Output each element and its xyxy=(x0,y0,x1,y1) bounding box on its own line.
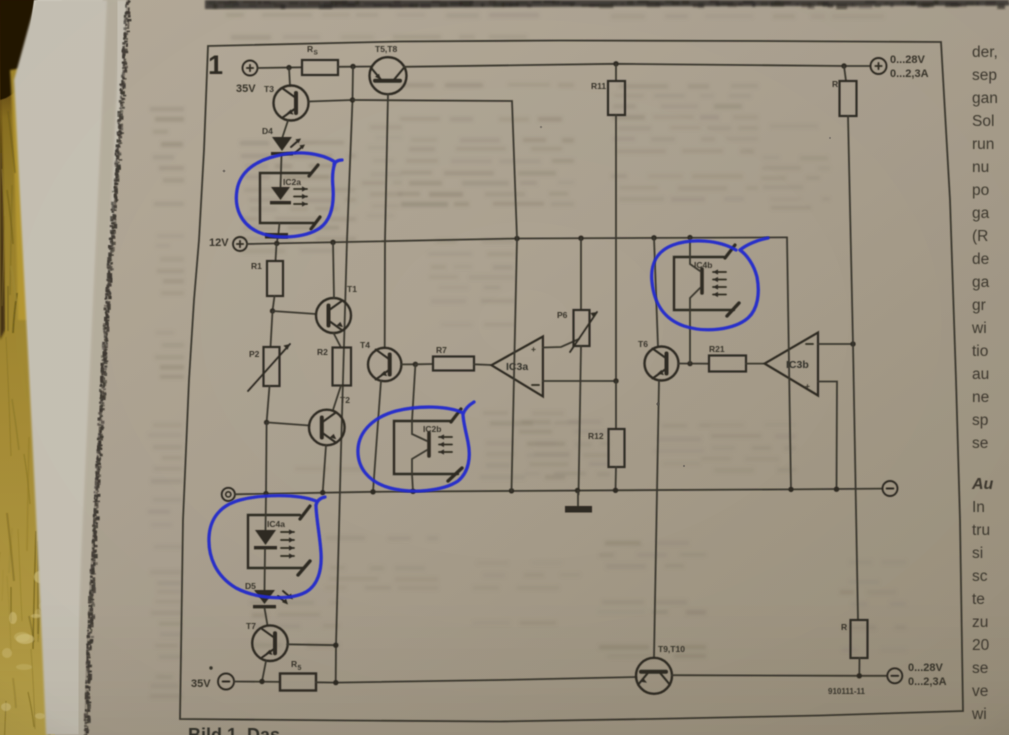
node IC3a minus input xyxy=(613,378,618,383)
white paper sheet corner top-left xyxy=(22,0,103,115)
wire IC3a plus input to P6 xyxy=(543,339,579,348)
node minus input on R vertical xyxy=(850,341,855,346)
resistor R21 xyxy=(709,356,746,372)
wire long vertical from top node down to bottom rail xyxy=(336,67,353,683)
wire R21 to IC3b output xyxy=(746,363,765,365)
transistor T1 xyxy=(316,298,351,333)
wire bottom rail left segment xyxy=(316,677,637,683)
potentiometer P6 xyxy=(580,238,582,310)
node R11 top xyxy=(613,61,618,66)
optocoupler IC4a xyxy=(248,515,303,568)
wire T3 base to vertical xyxy=(309,100,353,102)
optocoupler IC2b xyxy=(394,421,458,474)
node IC4b line on 12V rail xyxy=(687,235,692,240)
node IC4a chain on 0V rail xyxy=(263,491,268,496)
wire tap down to T3 xyxy=(289,68,290,86)
wire 35V+ to Rs xyxy=(258,66,303,69)
wire T6 collector vertical xyxy=(654,238,658,347)
transistor T2 xyxy=(309,410,345,446)
wire Rs to T5,T8 xyxy=(338,66,371,68)
resistor R2 xyxy=(333,348,352,386)
node R top right xyxy=(841,63,846,68)
blue loop around IC2a xyxy=(236,153,335,237)
node corner vertical on 0V rail xyxy=(788,487,793,492)
page curled left edge paper area xyxy=(14,0,127,735)
transistor T9,T10 xyxy=(636,658,672,694)
wire P6 down to 0V rail / ground xyxy=(579,346,582,495)
dust specks xyxy=(656,402,659,405)
wire T2 emitter to 0V rail xyxy=(323,445,326,492)
right German text column xyxy=(971,44,998,723)
wire to T2 base xyxy=(267,422,310,425)
figure frame border xyxy=(180,41,963,722)
resistor R11 xyxy=(615,64,617,81)
wire D4 to IC2a xyxy=(281,155,282,187)
resistor R (bottom right) xyxy=(851,620,868,658)
transistor T6 xyxy=(645,347,679,381)
node T6 collector line on 12V rail xyxy=(651,235,656,240)
node T3 collector tap xyxy=(286,65,291,70)
wire T6 base to R21 xyxy=(678,363,709,365)
wire T4 base to node xyxy=(401,363,415,365)
wood plank edge shadow xyxy=(0,95,5,340)
node ground stub on 0V rail xyxy=(575,488,580,493)
terminal 35V plus xyxy=(243,61,258,76)
potentiometer P2 xyxy=(264,347,280,386)
transistor T7 xyxy=(252,625,288,661)
wire IC2a bottom pin xyxy=(279,223,280,233)
blue pen tail IC4a xyxy=(316,497,325,505)
wire T1 emitter to R2 xyxy=(334,333,342,348)
halftone speckle column (edge of previous page) xyxy=(85,0,127,735)
resistor R5 xyxy=(280,674,316,691)
transistor T5,T8 xyxy=(370,57,407,94)
terminal 0V minus (right) xyxy=(883,481,898,496)
node T3 base junction xyxy=(350,97,355,102)
optocoupler IC4b xyxy=(674,257,734,310)
node vertical crossing on 12V rail xyxy=(514,236,519,241)
node R12 on 0V rail xyxy=(613,488,618,493)
wire top rail from T5,T8 to +terminal xyxy=(404,64,871,67)
wooden table left edge xyxy=(0,0,55,735)
node P2 bottom / T2 base xyxy=(264,420,269,425)
wire T4 emitter down to 0V rail xyxy=(373,381,381,492)
IC2a bottom terminal bar xyxy=(265,233,288,239)
wire down to 0V rail xyxy=(265,422,268,493)
resistor R1 xyxy=(276,244,277,262)
wire T6 emitter down to T9,T10 xyxy=(654,381,659,658)
terminal 0 (left) xyxy=(222,488,235,501)
terminal 12V plus xyxy=(233,237,247,251)
wire D5 to T7 xyxy=(265,608,268,625)
dark photo strip across top xyxy=(205,0,1009,9)
node T7 base junction xyxy=(333,643,338,648)
resistor R (top right) xyxy=(844,66,846,81)
node IC4b emitter on base wire xyxy=(687,361,692,366)
blue pen tail IC4b xyxy=(740,238,768,250)
wire long vertical through 0V (from T3 line) xyxy=(512,239,518,491)
op-amp IC3b xyxy=(765,333,818,396)
wire T3 emitter down to D4 xyxy=(283,121,289,138)
resistor R7 xyxy=(415,363,433,365)
show-through text mottling xyxy=(148,13,906,698)
transistor T4 xyxy=(368,348,401,381)
terminal 0..28V plus (top right) xyxy=(871,58,887,74)
blue pen tail IC2a xyxy=(334,160,342,164)
blue pen tail IC2b xyxy=(463,402,474,414)
wire down to P2 xyxy=(271,311,273,347)
node T4 emitter on 0V rail xyxy=(370,489,375,494)
node long vertical on 0V rail xyxy=(509,488,514,493)
node IC3b plus input on 0V rail xyxy=(834,487,839,492)
wire R down the right side xyxy=(848,116,858,620)
node IC2b emitter on 0V rail xyxy=(410,489,415,494)
transistor T3 xyxy=(274,86,309,121)
resistor Rs xyxy=(302,60,338,75)
ground symbol xyxy=(577,491,579,507)
wire T7 base to vertical xyxy=(287,643,336,646)
blue loop around IC4a xyxy=(209,496,321,598)
node bottom R on bottom rail xyxy=(857,673,862,678)
wire bottom rail right segment xyxy=(672,674,887,677)
node T4 base / IC2b / R7 xyxy=(413,362,418,367)
node IC2a/R1 on 12V rail xyxy=(274,241,279,246)
wire 35V- to R5 xyxy=(234,681,280,683)
wire to T1 base xyxy=(273,311,317,314)
wire T3 output top segment xyxy=(353,100,518,239)
wire R11 down xyxy=(615,115,617,381)
bright gold streak xyxy=(10,68,30,320)
wire IC4a to D5 xyxy=(264,549,267,590)
IC2b phototransistor xyxy=(427,433,431,456)
D4 light arrows xyxy=(291,140,299,147)
wire T7 emitter to bottom rail xyxy=(262,661,266,682)
node T7 emitter on bottom wire xyxy=(259,679,264,684)
node T2 emitter on 0V rail xyxy=(320,490,325,495)
wire T1 collector up to 12V rail xyxy=(333,242,334,298)
op-amp IC3a xyxy=(491,337,543,397)
node T1 collector on 12V rail xyxy=(330,240,335,245)
wire IC3b minus input to R vertical xyxy=(818,343,853,345)
wire T5,T8 emitter down to T4 xyxy=(385,94,388,348)
wire R2 to T2 xyxy=(333,386,341,411)
optocoupler IC2a xyxy=(260,173,314,223)
wire into IC4a xyxy=(265,494,268,530)
wire R7 to IC3a output xyxy=(474,363,491,366)
blue loop around IC2b xyxy=(358,407,469,491)
gutter curl shadow band xyxy=(82,0,114,735)
node P6 line on 12V rail xyxy=(578,236,583,241)
wire 12V rail xyxy=(247,237,787,244)
node R5 / vertical on bottom rail xyxy=(333,680,338,685)
node junction above T3 output line xyxy=(350,64,355,69)
terminal 35V minus (bottom left) xyxy=(218,674,234,690)
resistor R12 xyxy=(615,381,617,429)
wire IC3a minus input to R11/R12 node xyxy=(543,380,616,382)
blue loop around IC4b xyxy=(652,241,759,330)
IC4b phototransistor xyxy=(700,269,704,293)
wire 12V rail corner down to 0V rail xyxy=(787,237,791,490)
terminal 0..28V minus (bottom right) xyxy=(887,668,902,683)
wire 0V rail xyxy=(235,489,883,495)
node R1 bottom / T1 base xyxy=(270,308,275,313)
wire IC3b plus input down to 0V rail xyxy=(818,382,837,490)
